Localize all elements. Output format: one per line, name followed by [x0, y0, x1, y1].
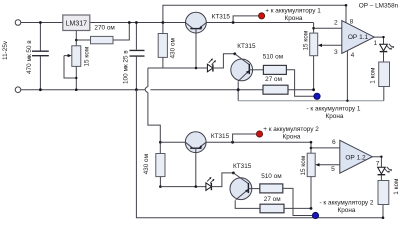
svg-text:8: 8: [350, 19, 354, 26]
node pin6 branch: [310, 147, 313, 150]
wire riser to red terminal 2: [233, 134, 257, 142]
wire pin 6: [311, 147, 340, 149]
svg-text:КТ315: КТ315: [233, 163, 252, 170]
node ch2 feed / Q3 collector: [159, 141, 162, 144]
wire ADJ to R1: [76, 39, 90, 41]
node bottom rail / C1: [39, 88, 42, 91]
svg-text:+ к аккумулятору 2: + к аккумулятору 2: [263, 126, 319, 133]
svg-text:- к аккумулятору 2: - к аккумулятору 2: [320, 200, 374, 207]
wire LED to Q2 collector node: [213, 54, 235, 68]
wire R8 right to blue node 2: [283, 188, 313, 215]
potentiometer RP2 15 ком: [307, 153, 315, 176]
wire ground drop to channel-2 bottom line: [136, 90, 383, 218]
resistor R3 430 ом channel 1: [158, 34, 167, 58]
svg-text:- к аккумулятору 1: - к аккумулятору 1: [307, 106, 361, 113]
wire channel-2 base line: [160, 186, 205, 188]
resistor R4 510 ом channel 1: [263, 65, 286, 74]
wire LED to R10: [380, 175, 382, 181]
wire LM317 ADJ down: [75, 31, 77, 46]
transistor Q2 КТ315: [231, 54, 264, 81]
terminal red + battery 2: [256, 131, 262, 137]
svg-text:27 ом: 27 ом: [264, 196, 281, 203]
wire Q4 emitter drop to 27-2: [235, 200, 260, 208]
node output rail / R1 riser: [128, 21, 131, 24]
LED HL3: [206, 177, 215, 191]
node top rail / emitter riser: [232, 21, 235, 24]
wire bottom rail from input - terminal to pot-1 bottom: [21, 89, 314, 91]
capacitor C1 plates: [32, 51, 49, 56]
wire R1 right riser to output rail: [113, 23, 129, 41]
wire op1 output: [374, 37, 383, 44]
svg-text:11-25v: 11-25v: [2, 40, 9, 60]
svg-text:Крона: Крона: [285, 15, 303, 22]
wire top rail from input + terminal to LM317 and onward to op-amp feed: [21, 22, 314, 24]
svg-text:1 ком: 1 ком: [393, 179, 399, 195]
node feed junction ch2: [231, 141, 234, 144]
node Q2 collector: [233, 52, 236, 55]
regulator U1 LM317: [63, 15, 90, 31]
wire LED2 to Q4 collector node: [211, 173, 233, 187]
svg-text:1: 1: [373, 40, 377, 47]
wire op2 output: [372, 157, 381, 168]
node rail end / pot-1: [312, 88, 315, 91]
resistor R8 510 ом channel 2: [260, 184, 283, 193]
svg-text:15 ком: 15 ком: [300, 156, 307, 176]
svg-text:4: 4: [351, 52, 355, 59]
op-amp U2B ОР 1.2: [340, 140, 373, 173]
LED HL2 output indicator 1: [380, 44, 394, 52]
node top rail / C1: [39, 21, 42, 24]
svg-text:7: 7: [376, 160, 380, 167]
op-amp U2A ОР 1.1: [342, 21, 375, 54]
wiper RP2 arrow / pin 5 wire: [317, 164, 340, 166]
terminal red + battery 1: [259, 13, 265, 19]
wire pot-1 bottom to rail: [313, 56, 315, 90]
svg-text:LM317: LM317: [66, 20, 88, 27]
resistor R9 27 ом channel 2: [260, 204, 284, 213]
node ADJ / R1: [75, 39, 78, 42]
svg-text:15 ком: 15 ком: [83, 47, 90, 67]
capacitor C2 100uF lead: [135, 23, 137, 90]
wire pin 2: [314, 27, 342, 29]
node bottom rail / C2 / ground drop: [135, 88, 138, 91]
svg-text:3: 3: [334, 49, 338, 56]
wire R9 right to pot-2 bottom: [284, 207, 311, 209]
svg-text:КТ315: КТ315: [237, 43, 256, 50]
wire Q3 emitter to feed junction: [206, 141, 311, 143]
wire rail corner down to pot-1: [313, 23, 315, 34]
resistor R7 430 ом channel 2: [156, 154, 165, 177]
wire Q1 emitter riser to red terminal: [233, 16, 258, 23]
svg-text:430 ом: 430 ом: [143, 154, 150, 174]
svg-text:430 ом: 430 ом: [170, 38, 177, 58]
svg-text:27 ом: 27 ом: [265, 76, 282, 83]
input terminal +: [15, 20, 21, 26]
node top rail / C2: [135, 21, 138, 24]
wire pot-2 bottom to 27-2 line: [310, 177, 312, 209]
resistor R10 1 ком channel 2: [378, 181, 389, 205]
svg-text:270 ом: 270 ом: [94, 24, 114, 31]
wire channel-1 base line: [148, 67, 207, 69]
node Q1 base / base line: [195, 67, 198, 70]
svg-text:ОР 1.2: ОР 1.2: [345, 154, 366, 161]
svg-text:100 мк 25 в: 100 мк 25 в: [122, 50, 129, 84]
wire R2 bottom to rail: [75, 66, 77, 89]
node top rail / 430-1 riser: [162, 21, 165, 24]
resistor R5 27 ом channel 1: [263, 85, 288, 94]
terminal blue - battery 2: [312, 212, 318, 218]
svg-text:КТ315: КТ315: [211, 133, 230, 140]
svg-text:Крона: Крона: [283, 134, 301, 141]
wire LED to R6: [383, 52, 385, 62]
svg-text:+ к аккумулятору 1: + к аккумулятору 1: [265, 8, 321, 15]
transistor Q1 КТ315: [186, 12, 207, 68]
svg-text:15 ком: 15 ком: [303, 31, 310, 51]
wire channel-1 ground line to 1k-1: [238, 100, 384, 102]
svg-text:6: 6: [332, 139, 336, 146]
svg-text:1 ком: 1 ком: [369, 68, 376, 84]
terminal blue - battery 1: [314, 93, 320, 99]
wire R4 right to blue node: [286, 70, 314, 97]
potentiometer RP1 15 ком: [310, 33, 318, 56]
wire riser to op-amp supply line (pin 8): [163, 5, 346, 33]
node bottom line / 1k-2 lead: [382, 216, 385, 219]
node supply line corner: [345, 4, 348, 7]
wire feed corner down to pot-2: [310, 142, 312, 153]
wiper RP1 arrow / pin 3 wire: [320, 44, 342, 46]
svg-text:470 мк 50 в: 470 мк 50 в: [26, 40, 33, 74]
wire Q2 emitter drop: [237, 81, 239, 100]
svg-text:КТ315: КТ315: [212, 14, 231, 21]
node bottom rail / R2: [75, 88, 78, 91]
svg-text:Крона: Крона: [326, 113, 344, 120]
svg-text:ОР 1.1: ОР 1.1: [348, 34, 369, 41]
svg-text:Крона: Крона: [338, 207, 356, 214]
LED HL1: [207, 58, 216, 72]
svg-text:510 ом: 510 ом: [261, 173, 281, 180]
node bottom rail / Q2 emitter: [237, 88, 240, 91]
transistor Q4 КТ315: [230, 173, 260, 200]
resistor R6 1 ком channel 1: [379, 62, 390, 87]
transistor Q3 КТ315: [160, 132, 206, 187]
svg-text:510 ом: 510 ом: [263, 54, 283, 61]
node Q4 collector: [232, 172, 235, 175]
svg-text:5: 5: [331, 166, 335, 173]
node Q3 base / base line 2: [195, 185, 198, 188]
wire channel-2 feed drop with hop over bottom rail: [145, 68, 160, 154]
resistor R2 15 ком (trimmer): [72, 46, 81, 67]
wire pin 4 drop: [346, 51, 348, 101]
capacitor C1 470uF lead: [39, 23, 41, 90]
capacitor C2 plates: [130, 50, 145, 56]
node ground line / pin4: [346, 100, 348, 102]
node pin2 branch: [312, 27, 315, 30]
wiper R2 arrow and short: [64, 56, 76, 78]
LED HL4 output indicator 2: [378, 167, 392, 175]
resistor R1 270 ом: [91, 36, 114, 43]
input terminal -: [15, 87, 21, 93]
wire R7 bottom to base line 2: [159, 177, 161, 187]
svg-text:2: 2: [334, 19, 338, 26]
wire R3 bottom to base line: [162, 57, 164, 68]
svg-text:ОР – LM358n: ОР – LM358n: [359, 2, 399, 9]
node R2 wiper short: [75, 77, 77, 79]
